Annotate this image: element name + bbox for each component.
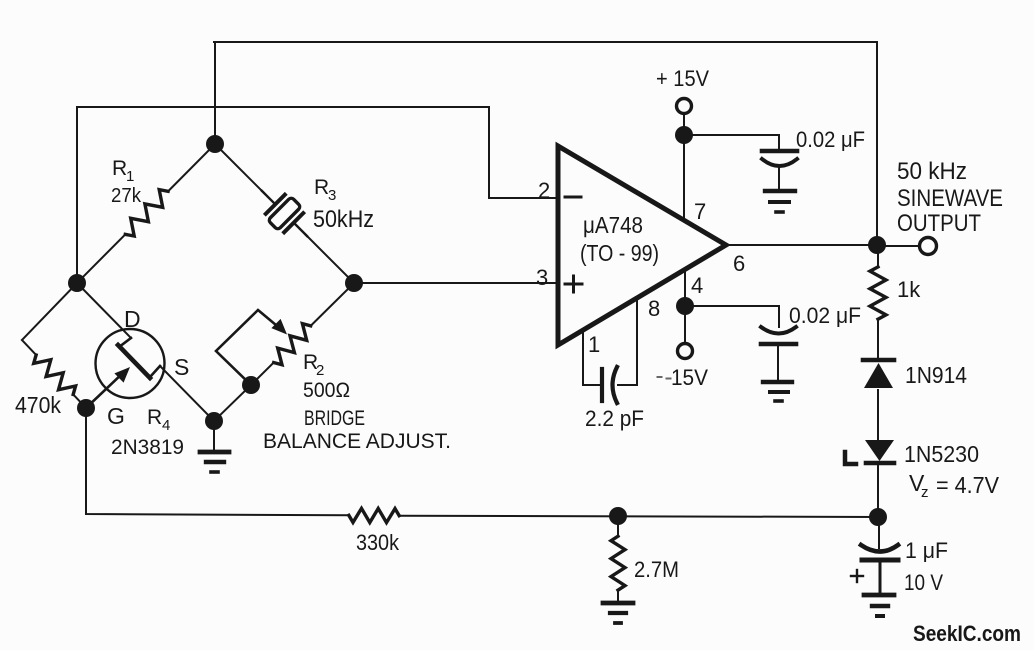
ground under source node <box>200 421 229 472</box>
svg-text:330k: 330k <box>356 530 400 555</box>
zener 1N5230 <box>845 440 894 464</box>
wire bridge top to crystal <box>215 144 264 193</box>
plus sign of 1uF <box>851 570 863 582</box>
wire noninverting input <box>354 282 556 284</box>
svg-text:500Ω: 500Ω <box>303 379 350 402</box>
resistor 2.7M <box>611 516 625 601</box>
svg-text:10 V: 10 V <box>904 570 943 595</box>
wire bottom rail left <box>86 408 349 515</box>
svg-text:4: 4 <box>162 417 170 434</box>
svg-text:1N5230: 1N5230 <box>904 441 979 467</box>
pin 4 stub <box>684 270 686 306</box>
svg-text:BRIDGE: BRIDGE <box>304 407 365 430</box>
svg-text:BALANCE ADJUST.: BALANCE ADJUST. <box>263 430 451 453</box>
-15V terminal <box>684 306 686 343</box>
svg-text:6: 6 <box>733 251 745 276</box>
svg-text:2: 2 <box>538 178 550 203</box>
wire R2 lower node to source node <box>214 385 251 421</box>
resistor R2 500 ohm body <box>251 283 354 385</box>
node R2 bottom <box>242 376 260 394</box>
R2 wiper arrowhead <box>271 319 287 335</box>
R2 wiper tie loop <box>216 310 276 385</box>
svg-text:1k: 1k <box>897 277 921 302</box>
svg-text:1: 1 <box>588 332 600 357</box>
svg-text:+ 15V: + 15V <box>656 66 709 91</box>
node bridge top <box>206 135 224 153</box>
svg-text:1N914: 1N914 <box>905 362 967 388</box>
capacitor 0.02uF top <box>762 151 797 190</box>
svg-text:OUTPUT: OUTPUT <box>897 210 981 237</box>
resistor R1 27k <box>77 144 215 283</box>
svg-text:4: 4 <box>691 273 703 298</box>
wire -15V node to bypass cap <box>685 306 779 327</box>
svg-text:8: 8 <box>648 296 660 321</box>
svg-text:0.02 μF: 0.02 μF <box>796 127 865 152</box>
capacitor 1uF 10V <box>861 518 898 594</box>
svg-text:3: 3 <box>536 265 548 290</box>
wire bottom rail right <box>399 516 878 517</box>
svg-text:= 4.7V: = 4.7V <box>936 472 1000 498</box>
crystal R3 50kHz <box>250 179 319 248</box>
node 2.7M tap <box>609 507 627 525</box>
svg-text:SINEWAVE: SINEWAVE <box>897 185 1003 212</box>
svg-text:50 kHz: 50 kHz <box>897 158 967 185</box>
transistor Q1 2N3819 JFET <box>77 283 214 421</box>
svg-text:μA748: μA748 <box>583 212 643 238</box>
wire right branch 1k to diode <box>877 330 879 358</box>
svg-text:2: 2 <box>316 362 324 379</box>
wire 1N914 to 1N5230 <box>877 390 879 439</box>
svg-text:SeekIC.com: SeekIC.com <box>913 621 1021 646</box>
capacitor 0.02uF bottom <box>761 327 796 381</box>
wire top feedback rail <box>214 42 877 237</box>
resistor 470k <box>22 283 86 408</box>
label -15V leading dashes <box>658 377 671 379</box>
ground under 2.7M <box>603 600 633 623</box>
wire crystal to noninv node <box>305 234 354 283</box>
svg-text:1: 1 <box>126 168 134 185</box>
wire inverting-input rail <box>77 107 556 275</box>
+15V terminal <box>677 99 692 114</box>
wire zener to bottom node <box>877 465 879 517</box>
svg-text:50kHz: 50kHz <box>313 206 374 233</box>
wire op-amp output to node <box>726 244 877 246</box>
svg-text:2.2 pF: 2.2 pF <box>585 406 644 431</box>
JFET gate arrowhead <box>114 367 130 383</box>
svg-text:R: R <box>112 157 127 180</box>
wire +15V node to pin 7 <box>683 135 685 220</box>
svg-text:z: z <box>921 484 929 501</box>
node -15V <box>676 297 694 315</box>
svg-text:R: R <box>147 406 162 429</box>
svg-text:1 μF: 1 μF <box>905 538 948 563</box>
ground under 1uF <box>864 595 894 616</box>
svg-text:2.7M: 2.7M <box>634 557 679 582</box>
ground under top cap <box>765 191 795 212</box>
svg-text:15V: 15V <box>671 365 708 390</box>
svg-text:7: 7 <box>694 199 706 224</box>
op-amp minus sign <box>565 196 581 199</box>
svg-text:3: 3 <box>328 187 336 204</box>
output terminal <box>920 238 937 255</box>
svg-text:(TO - 99): (TO - 99) <box>580 240 659 266</box>
op-amp U1 uA748 <box>558 146 726 345</box>
node source <box>205 412 223 430</box>
node bottom right <box>869 508 887 526</box>
svg-text:2N3819: 2N3819 <box>111 436 184 459</box>
svg-text:470k: 470k <box>15 392 61 418</box>
wire +15V node to bypass cap <box>684 135 779 149</box>
node gate <box>77 399 95 417</box>
node noninverting input <box>345 274 363 292</box>
diode 1N914 <box>863 360 894 388</box>
node bridge left <box>68 274 86 292</box>
svg-text:D: D <box>124 306 141 332</box>
resistor 330k <box>349 508 399 522</box>
resistor 1k <box>870 245 886 330</box>
ground under bottom cap <box>763 382 792 401</box>
svg-text:27k: 27k <box>111 185 142 207</box>
node output <box>868 236 886 254</box>
pin 1 / pin 8 stubs and 2.2pF cap <box>583 299 637 403</box>
wire stub from top rail to bridge top node <box>214 42 216 144</box>
svg-text:R: R <box>314 176 329 199</box>
svg-text:0.02 μF: 0.02 μF <box>789 303 861 328</box>
junction node dots <box>68 126 887 526</box>
op-amp plus sign <box>565 276 582 292</box>
wire output node to terminal <box>877 245 920 247</box>
node +15V <box>675 126 693 144</box>
svg-text:S: S <box>174 354 189 380</box>
svg-text:G: G <box>107 403 125 429</box>
